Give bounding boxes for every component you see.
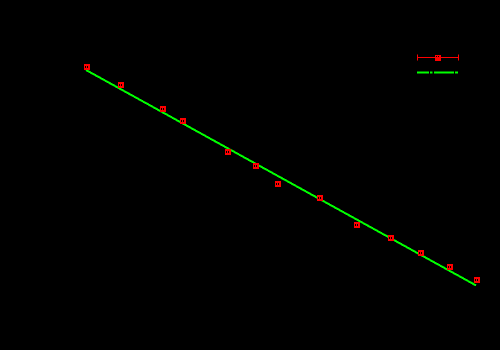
- fit line (green): [86, 70, 476, 285]
- data point 1 (87.1,67.3): square marker with error bar: [84, 64, 90, 70]
- legend: green dashed line sample: [417, 72, 458, 74]
- data point 9 (357.0,225.0): square marker with error bar: [354, 222, 360, 228]
- data point 3 (162.5,108.5): square marker with error bar: [160, 106, 166, 112]
- legend: red errorbar sample: [418, 55, 459, 62]
- data point 5 (228.0,152.3): square marker with error bar: [225, 149, 231, 155]
- data point 6 (256.0,165.8): square marker with error bar: [253, 163, 259, 169]
- data point 12 (450.0,267.2): square marker with error bar: [447, 264, 453, 270]
- data point 13 (477.0,280.0): square marker with error bar: [474, 277, 480, 283]
- data point 8 (320.1,198.0): square marker with error bar: [317, 195, 323, 201]
- data point 7 (278.0,184.0): square marker with error bar: [275, 181, 281, 187]
- data point 4 (182.6,120.6): square marker with error bar: [180, 118, 186, 124]
- data point 11 (421.0,253.5): square marker with error bar: [418, 250, 424, 256]
- data point 2 (120.5,84.7): square marker with error bar: [118, 82, 124, 88]
- data point 10 (390.7,237.9): square marker with error bar: [388, 235, 394, 241]
